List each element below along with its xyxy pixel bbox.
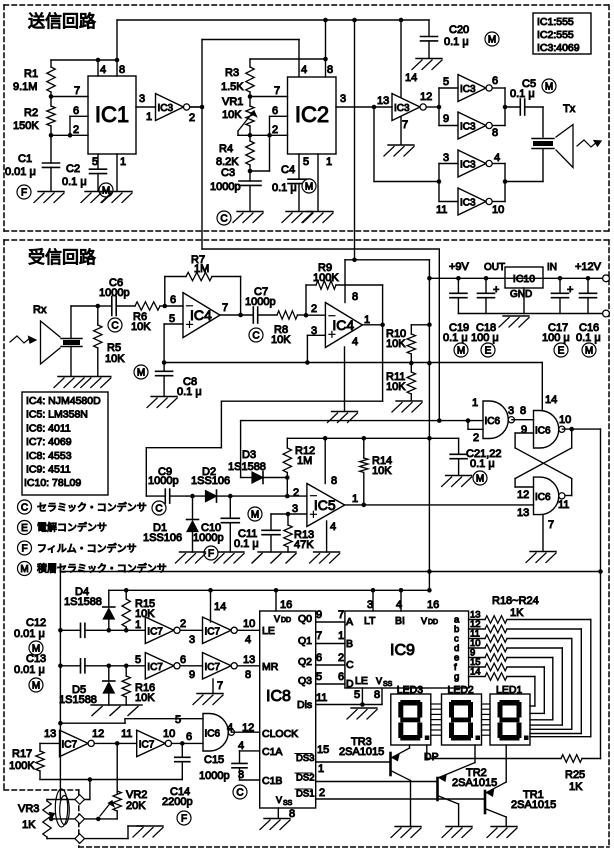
svg-text:DD: DD	[281, 617, 291, 624]
svg-text:6: 6	[180, 654, 186, 666]
svg-text:IC2: IC2	[295, 102, 329, 127]
wire: inverter pin14 supply	[211, 590, 227, 622]
wire: +9V rail of transmitter	[117, 18, 429, 60]
svg-text:M: M	[137, 368, 145, 379]
svg-text:8: 8	[374, 689, 380, 701]
svg-text:IC3:4069: IC3:4069	[537, 42, 580, 54]
diode D3 1S1588 gating	[228, 449, 287, 484]
svg-text:1M: 1M	[194, 263, 209, 275]
svg-text:LT: LT	[364, 615, 376, 627]
svg-text:10K: 10K	[386, 381, 406, 393]
mark E electrolytic at C18	[481, 343, 495, 357]
wire: gate line from transmitter to D3 and IC6	[202, 249, 470, 478]
wire: latch lower gate pin7 ground	[543, 515, 554, 551]
svg-text:+: +	[493, 284, 499, 296]
svg-text:4: 4	[245, 634, 251, 646]
svg-text:1K: 1K	[510, 607, 524, 619]
node: buffer output to driver inverters	[426, 76, 458, 126]
mark E electrolytic at C17	[554, 343, 568, 357]
ground for latch gate pin7	[530, 551, 556, 553]
svg-text:V: V	[274, 614, 280, 624]
svg-text:2SA1015: 2SA1015	[452, 777, 497, 789]
svg-text:14: 14	[545, 394, 557, 406]
svg-text:15: 15	[317, 744, 329, 756]
receiver section dashed border with connector cut-out	[4, 240, 609, 847]
svg-text:OUT: OUT	[484, 262, 505, 273]
resistor R17 100K	[9, 728, 60, 780]
svg-text:10K: 10K	[135, 692, 155, 704]
node: VR2 wiper junction	[96, 817, 101, 822]
svg-text:9: 9	[521, 424, 527, 436]
svg-text:2: 2	[73, 124, 79, 136]
svg-text:1K: 1K	[569, 781, 583, 793]
svg-text:C1B: C1B	[262, 775, 282, 787]
svg-text:0.1 μ: 0.1 μ	[234, 538, 259, 550]
svg-text:3: 3	[139, 93, 145, 105]
svg-text:7: 7	[338, 609, 344, 621]
wire: latch upper output node	[562, 427, 600, 432]
inverter IC3 gate F pins 11-10	[458, 188, 504, 216]
svg-text:LE: LE	[262, 625, 275, 637]
terminal GND at border	[603, 310, 610, 317]
resistor R24 1K and segment g wire	[454, 667, 535, 707]
svg-text:C: C	[111, 321, 118, 332]
svg-text:IC3: IC3	[158, 103, 174, 114]
capacitor C21,22 0.1u multilayer	[450, 438, 501, 475]
svg-text:フィルム・コンデンサ: フィルム・コンデンサ	[37, 542, 137, 555]
resistor R13 47K	[284, 514, 314, 552]
svg-text:IN: IN	[547, 262, 557, 273]
wire: lower pair outputs to transducer bottom	[492, 150, 543, 202]
node: IC2 pin7 junction	[248, 85, 288, 99]
capacitor C6 1000p ceramic	[99, 277, 135, 316]
svg-text:R25: R25	[565, 769, 585, 781]
wire: IC2 pin8 supply from rail	[250, 20, 333, 77]
wire: lower inverter pair input from pin13 node	[374, 107, 458, 216]
svg-text:1: 1	[326, 156, 332, 168]
svg-text:IC7: IC7	[147, 662, 163, 673]
resistor R5 10K	[94, 306, 126, 376]
svg-text:IC1: IC1	[95, 102, 129, 127]
svg-text:MR: MR	[262, 661, 279, 673]
capacitor C3 1000p ceramic	[210, 167, 261, 211]
wire: IC4 pin4 ground	[344, 347, 346, 411]
svg-text:100K: 100K	[313, 272, 339, 284]
capacitor C16 0.1u multilayer	[576, 278, 601, 344]
svg-text:9: 9	[189, 669, 195, 681]
wire: latch output Q vertical	[598, 429, 603, 758]
incoming wave arrow at Rx	[10, 336, 36, 343]
ground for C4	[286, 211, 312, 213]
transistor TR2 2SA1015	[438, 745, 498, 826]
svg-text:C: C	[346, 659, 354, 671]
svg-text:10: 10	[243, 618, 255, 630]
svg-text:IC9: 4511: IC9: 4511	[26, 464, 71, 476]
svg-text:Q2: Q2	[298, 656, 312, 668]
svg-text:C: C	[252, 331, 259, 342]
svg-text:10: 10	[559, 414, 571, 426]
svg-text:9: 9	[443, 113, 449, 125]
svg-text:5: 5	[354, 689, 360, 701]
svg-text:IC6: IC6	[535, 425, 551, 436]
IC2 555 timer box	[288, 77, 337, 154]
svg-text:1S1588: 1S1588	[228, 461, 266, 473]
svg-text:6: 6	[170, 294, 176, 306]
svg-text:3: 3	[508, 405, 514, 417]
wire: IC5 pin3 input line	[271, 503, 307, 516]
IC2 pin1 ground wire	[318, 154, 332, 211]
svg-text:4: 4	[396, 599, 402, 611]
svg-text:VR1: VR1	[222, 96, 243, 108]
IC1 pin4 and pin8 labels	[100, 64, 125, 76]
legend box IC1 IC2 IC3 types	[533, 13, 591, 54]
7-segment display LED3	[391, 684, 431, 745]
ground for D5 and R16	[91, 705, 142, 716]
NAND gate IC6 pins 1,2-3 gate pulse inverter	[468, 397, 526, 444]
wire: IC4 pin3 to bias rail	[307, 335, 325, 362]
svg-text:0.1 μ: 0.1 μ	[510, 88, 535, 100]
svg-text:R17: R17	[12, 748, 32, 760]
svg-text:IC7: IC7	[205, 662, 221, 673]
wire: inverter pin7 to ground	[401, 117, 408, 144]
svg-text:1000p: 1000p	[210, 181, 241, 193]
svg-text:1S1588: 1S1588	[64, 596, 102, 608]
svg-text:2SA1015: 2SA1015	[511, 799, 556, 811]
7-segment display LED2	[442, 684, 482, 745]
svg-text:Dis: Dis	[297, 699, 312, 711]
wire: IC8 pin16 VDD supply	[276, 590, 292, 611]
ground for Rx	[58, 376, 84, 378]
svg-text:13: 13	[243, 654, 255, 666]
svg-text:BI: BI	[395, 615, 405, 627]
svg-text:IC2:555: IC2:555	[537, 29, 574, 41]
svg-text:8: 8	[331, 475, 337, 487]
resistor R10 10K bias	[386, 325, 429, 363]
svg-text:8: 8	[492, 127, 498, 139]
svg-text:100 μ: 100 μ	[542, 332, 570, 344]
svg-text:M: M	[488, 35, 496, 46]
svg-text:16: 16	[427, 599, 439, 611]
wire: IC1 pin3 output to inverter	[136, 93, 156, 123]
svg-text:6: 6	[186, 731, 192, 743]
svg-text:IC4: IC4	[190, 307, 212, 323]
svg-text:C: C	[236, 788, 243, 799]
svg-text:8: 8	[520, 405, 526, 417]
inverter IC7 gate B pins 3-4	[203, 617, 256, 644]
resistor R3 1.5K	[221, 59, 254, 97]
resistor R15 10K	[122, 590, 155, 630]
wire: latch cross-coupling	[515, 429, 572, 495]
svg-text:F: F	[208, 549, 214, 560]
resistor R12 1M	[283, 438, 315, 496]
svg-text:11: 11	[558, 499, 569, 511]
svg-text:0.1 μ: 0.1 μ	[62, 176, 87, 188]
svg-text:5: 5	[443, 76, 449, 88]
diode D2 1SS106 detector	[191, 466, 230, 502]
svg-text:1000p: 1000p	[148, 475, 179, 487]
svg-text:F: F	[21, 544, 27, 555]
wire: bias rail to gates supply	[162, 360, 543, 410]
IC8 4553 counter box	[260, 611, 316, 808]
svg-text:IC4: IC4	[332, 317, 354, 333]
svg-text:Q1: Q1	[298, 635, 312, 647]
svg-text:IC9: IC9	[390, 642, 415, 659]
mark M at C16	[582, 343, 596, 357]
svg-text:C: C	[220, 214, 227, 225]
diode D1 1SS106 clamp	[143, 496, 199, 552]
mark M multilayer ceramic at C2	[99, 183, 113, 197]
resistor R22 1K and segment e wire	[454, 648, 553, 720]
inverter IC7 gate D pins 9-8	[203, 653, 256, 680]
svg-text:IC6: IC6	[205, 728, 221, 739]
svg-text:7: 7	[274, 85, 280, 97]
node: oscillator node VR2	[94, 728, 136, 794]
ground for power supply bus	[503, 315, 529, 317]
svg-text:13: 13	[517, 507, 529, 519]
svg-text:V: V	[276, 795, 282, 805]
capacitor C5 0.1u multilayer	[510, 78, 543, 115]
svg-text:IC6: IC6	[485, 416, 501, 427]
wire: C5 to transducer top	[542, 107, 544, 137]
svg-text:積層セラミック・コンデンサ: 積層セラミック・コンデンサ	[37, 562, 167, 575]
resistor R4 8.2K	[216, 135, 254, 171]
svg-text:5: 5	[92, 156, 98, 168]
svg-text:IC8: 4553: IC8: 4553	[26, 450, 72, 462]
svg-text:M: M	[476, 474, 484, 485]
svg-text:IC7: IC7	[147, 626, 163, 637]
svg-text:R18~R24: R18~R24	[492, 595, 539, 607]
inverter IC3 gate B pins 13-12 oscillator buffer	[392, 91, 432, 121]
diode D4 1S1588	[64, 586, 115, 630]
svg-text:150K: 150K	[13, 120, 39, 132]
svg-text:12: 12	[92, 728, 104, 740]
resistor R19 1K and segment b wire	[454, 619, 581, 734]
capacitor C9 1000p ceramic	[148, 466, 187, 503]
svg-text:GND: GND	[510, 289, 532, 300]
svg-text:R4: R4	[219, 143, 233, 155]
svg-text:6: 6	[272, 105, 278, 117]
svg-text:IC5: LM358N: IC5: LM358N	[26, 409, 88, 421]
svg-text:13: 13	[377, 95, 389, 107]
svg-text:2: 2	[272, 124, 278, 136]
7-segment display LED1	[490, 684, 530, 745]
svg-text:1000p: 1000p	[199, 770, 230, 782]
svg-text:LE: LE	[355, 675, 368, 687]
capacitor C7 1000p ceramic	[245, 286, 277, 323]
svg-text:IC7: 4069: IC7: 4069	[26, 436, 72, 448]
svg-text:2SA1015: 2SA1015	[339, 746, 384, 758]
wire: IC8 Q0 to IC9 A	[316, 609, 345, 622]
capacitor C11 0.1u	[234, 514, 280, 552]
inverter IC3 gate E pins 3-4	[458, 150, 500, 177]
NAND gate IC6 pins 5,6-4 clock gate	[203, 714, 254, 752]
svg-text:6: 6	[338, 671, 344, 683]
svg-text:1000p: 1000p	[99, 287, 130, 299]
wire: paralleled driver outputs to C5	[492, 88, 520, 126]
svg-text:SS: SS	[383, 681, 393, 688]
legend mark E electrolytic capacitor	[18, 521, 108, 535]
svg-text:2: 2	[293, 487, 299, 499]
resistor R21 1K and segment d wire	[454, 638, 562, 725]
svg-text:+: +	[567, 284, 573, 296]
svg-text:1S1588: 1S1588	[59, 694, 97, 706]
svg-text:7: 7	[402, 119, 408, 131]
svg-text:7: 7	[316, 630, 322, 642]
svg-text:DD: DD	[428, 619, 438, 626]
wire: IC10 GND pin to ground bus	[510, 288, 532, 314]
inverter IC7 gate F pins 11-10 oscillator	[137, 728, 176, 757]
wire: +9V vertical distribution A	[427, 260, 432, 593]
svg-text:4: 4	[330, 521, 336, 533]
ground for IC5 pin4	[314, 551, 340, 553]
svg-text:5: 5	[175, 714, 181, 726]
ultrasonic transmitter Tx transducer	[532, 103, 576, 168]
svg-text:1K: 1K	[22, 819, 36, 831]
svg-text:1: 1	[146, 111, 152, 123]
svg-text:1: 1	[338, 630, 344, 642]
svg-text:R1: R1	[24, 68, 38, 80]
svg-text:1.5K: 1.5K	[221, 81, 244, 93]
svg-text:IC4: NJM4580D: IC4: NJM4580D	[26, 395, 101, 407]
inverter IC3 gate A pins 1-2	[156, 94, 196, 125]
svg-text:5: 5	[316, 671, 322, 683]
wire: to second inverter	[180, 630, 202, 646]
mark M multilayer ceramic at C5	[542, 79, 556, 93]
ground for TR1	[491, 826, 517, 828]
resistors R18-R24 1K segment series	[492, 595, 539, 619]
IC1 pin5 wire and capacitor C2 0.1u	[62, 154, 107, 191]
wire: IC4 pin5 to bias rail	[164, 324, 183, 363]
node: R10/R11 bias junction	[409, 361, 414, 366]
svg-text:4: 4	[352, 336, 358, 348]
svg-text:送信回路: 送信回路	[28, 12, 96, 31]
svg-text:10: 10	[163, 728, 175, 740]
mark F film at C10	[204, 546, 218, 560]
wire: IC9 VDD pin16 supply	[427, 599, 439, 611]
legend box IC4-IC10 types	[22, 392, 108, 495]
wire: +9V distribution line of logic section	[109, 588, 430, 593]
wire: inverter output node to IC2 pin4 and down to receiver	[190, 40, 299, 250]
svg-text:2: 2	[473, 432, 479, 444]
svg-text:1000p: 1000p	[193, 532, 224, 544]
svg-text:2: 2	[319, 787, 325, 799]
terminal +12V input	[575, 261, 609, 282]
svg-text:M: M	[585, 346, 593, 357]
svg-text:+9V: +9V	[449, 261, 470, 273]
svg-text:6: 6	[316, 652, 322, 664]
comparator IC5 LM358	[293, 484, 358, 534]
inverter IC3 gate D pins 9-8	[458, 112, 498, 139]
svg-text:R3: R3	[225, 67, 239, 79]
potentiometer VR2 20K	[98, 789, 147, 819]
svg-text:DP: DP	[424, 751, 439, 763]
ground for IC9 LE VSS	[351, 707, 377, 709]
wire: IC4 second stage output node	[363, 323, 385, 328]
svg-text:IC5: IC5	[314, 497, 336, 513]
mark C ceramic at C9	[152, 501, 166, 515]
svg-text:E: E	[485, 346, 492, 357]
svg-text:M: M	[545, 82, 553, 93]
ground for C10	[218, 551, 244, 553]
ground for IC1 pin1	[106, 191, 132, 193]
svg-text:0.01 μ: 0.01 μ	[5, 166, 36, 178]
svg-text:1: 1	[318, 763, 324, 775]
capacitor C14 2200p film	[162, 743, 193, 808]
resistor R9 100K feedback	[306, 262, 383, 325]
op-amp IC4 second stage	[311, 291, 370, 348]
ground for TR2	[446, 826, 472, 828]
wire: IC5 pin4 ground	[326, 521, 328, 552]
svg-text:M: M	[20, 564, 28, 575]
resistor R6 10K	[131, 302, 165, 333]
svg-text:13: 13	[44, 728, 56, 740]
IC2 pin5 wire and capacitor C4 0.1u	[272, 154, 310, 211]
wire: LE to IC8	[237, 630, 259, 646]
ground for inverter pin7	[388, 144, 414, 146]
svg-text:C15: C15	[204, 754, 224, 766]
IC1 555 timer box	[88, 76, 136, 154]
wire: IC2 pin3 output	[336, 93, 392, 109]
wire: amplifier output down to detector	[146, 325, 382, 496]
svg-text:0.01 μ: 0.01 μ	[14, 628, 45, 640]
svg-text:V: V	[421, 616, 427, 626]
svg-text:6: 6	[492, 75, 498, 87]
potentiometer VR1 10K	[222, 96, 257, 135]
svg-text:6: 6	[73, 105, 79, 117]
resistor R14 10K pull-up	[360, 438, 393, 505]
mark M at C21,22	[473, 471, 487, 485]
ground for connector	[137, 825, 163, 827]
wire: clock gate pin5 from shaper line	[58, 714, 203, 726]
ground for C3	[237, 211, 263, 213]
svg-text:2200p: 2200p	[162, 796, 193, 808]
wire: capacitor ground bus of power supply	[458, 313, 604, 315]
ultrasonic receiver Rx transducer	[33, 304, 98, 376]
wire: IC8 pin8 VSS ground	[278, 808, 295, 820]
svg-text:47K: 47K	[294, 539, 314, 551]
svg-text:C1: C1	[18, 153, 32, 165]
wire: IC8 Dis to IC9 LE/VSS ground node	[316, 688, 382, 707]
svg-text:SS: SS	[283, 800, 293, 807]
svg-text:10K: 10K	[386, 338, 406, 350]
svg-text:100K: 100K	[9, 760, 35, 772]
wire: IC8 DS3 to TR3 base	[316, 744, 390, 762]
wire: IC8 DS2 to TR2 base	[316, 763, 437, 782]
svg-text:IC3: IC3	[460, 160, 476, 171]
svg-text:V: V	[376, 676, 382, 686]
svg-text:1: 1	[135, 619, 141, 631]
svg-text:10K: 10K	[372, 465, 392, 477]
svg-text:2: 2	[311, 303, 317, 315]
svg-text:7: 7	[548, 519, 554, 531]
capacitor C17 100u electrolytic	[542, 278, 573, 344]
svg-text:CLOCK: CLOCK	[262, 728, 298, 740]
svg-text:8: 8	[245, 669, 251, 681]
wire: IC5 output to latch gate	[345, 503, 534, 519]
svg-text:D: D	[346, 678, 354, 690]
svg-text:7: 7	[222, 302, 228, 314]
svg-text:C4: C4	[281, 164, 295, 176]
svg-text:8: 8	[327, 64, 333, 76]
mark F film capacitor at C1	[17, 185, 31, 199]
ground for R11	[396, 400, 422, 402]
wire: +9V rail at power supply	[429, 261, 604, 281]
svg-text:DS1: DS1	[296, 789, 314, 800]
svg-text:1: 1	[352, 493, 358, 505]
resistor R8 10K	[271, 311, 306, 346]
svg-text:IC7: IC7	[205, 626, 221, 637]
svg-text:B: B	[346, 638, 353, 650]
